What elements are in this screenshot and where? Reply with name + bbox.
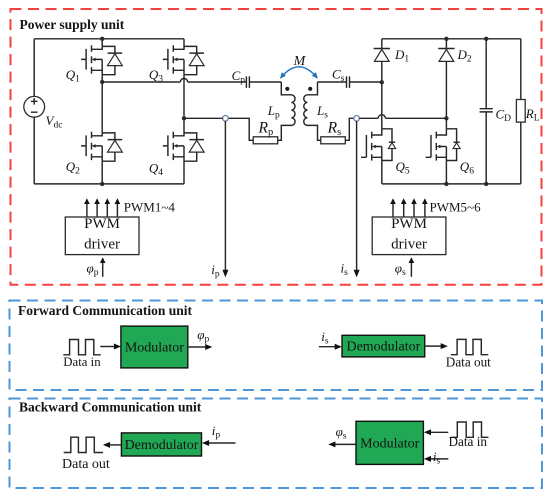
junction dot bottom of leg A — [100, 182, 104, 186]
node: primary current probe circle — [223, 116, 229, 122]
svg-text:ip: ip — [211, 262, 220, 280]
svg-text:Q5: Q5 — [396, 159, 410, 177]
wire: leg C (D1/Q5) — [381, 39, 383, 184]
resistor Rs — [321, 137, 346, 144]
forward unit: data-out waveform — [451, 339, 489, 354]
transistor Q6 — [426, 129, 461, 161]
gate drive arrows PWM5-6 — [390, 198, 428, 217]
svg-text:Q4: Q4 — [149, 161, 163, 179]
current arrow ip — [222, 121, 228, 278]
mutual inductance coupling arrow — [280, 67, 318, 79]
svg-text:D1: D1 — [394, 47, 409, 65]
wire: secondary top to Cs — [318, 81, 347, 83]
PWM driver box left — [65, 217, 139, 255]
wire: Rp to primary node — [228, 118, 253, 140]
gate drive arrows PWM1-4 — [84, 198, 120, 217]
svg-text:Vdc: Vdc — [46, 113, 63, 131]
transistor Q5 — [361, 129, 396, 161]
svg-text:Power supply unit: Power supply unit — [20, 17, 125, 32]
transistor Q4 — [163, 132, 204, 161]
phase input arrow right — [409, 257, 415, 277]
wire: top-left rail — [34, 38, 184, 40]
svg-text:Rp: Rp — [258, 119, 274, 138]
inductor Ls secondary winding — [304, 82, 321, 140]
svg-text:Data out: Data out — [62, 457, 110, 472]
svg-text:is: is — [433, 449, 441, 467]
svg-text:driver: driver — [84, 237, 120, 253]
svg-text:Cp: Cp — [232, 68, 246, 86]
wire: bottom-right rail — [382, 183, 521, 185]
backward unit: data-in waveform — [451, 422, 489, 437]
wire: bottom-left rail — [34, 183, 184, 185]
junction dot Cs node — [380, 80, 384, 84]
svg-text:is: is — [341, 261, 349, 279]
junction dot bottom leg D — [444, 182, 448, 186]
polarity dot primary — [285, 87, 289, 91]
svg-text:Ls: Ls — [316, 103, 328, 121]
backward communication unit blue dashed border — [10, 399, 543, 489]
svg-text:Q6: Q6 — [460, 159, 474, 177]
svg-text:Lp: Lp — [267, 103, 280, 121]
arrow: is into modulator (backward) — [424, 456, 448, 462]
svg-text:Demodulator: Demodulator — [125, 438, 199, 453]
junction dot mid leg B — [182, 116, 186, 120]
wire: Cs to leg C — [350, 81, 382, 83]
transistor Q1 — [81, 45, 122, 74]
source Vdc — [24, 96, 45, 117]
junction dot leg D mid — [444, 116, 448, 120]
arrow: is to demodulator — [319, 344, 342, 350]
polarity dot secondary — [308, 87, 312, 91]
svg-text:φs: φs — [336, 424, 347, 442]
wire: secondary node to leg D with hop over leg C — [359, 115, 446, 119]
demodulator box (forward) — [342, 335, 425, 357]
power supply unit red dashed border — [11, 9, 542, 285]
svg-text:RL: RL — [525, 106, 540, 124]
svg-text:Rs: Rs — [327, 119, 342, 138]
demodulator box (backward) — [121, 433, 201, 456]
current arrow is — [354, 121, 360, 278]
wire: top-right rail — [382, 38, 521, 40]
svg-text:Demodulator: Demodulator — [346, 340, 420, 355]
capacitor Cp — [246, 76, 249, 88]
resistor RL — [516, 39, 525, 184]
modulator box (backward) — [356, 421, 423, 464]
wire: left rail — [33, 39, 35, 184]
arrow: demodulator output — [425, 343, 448, 349]
arrow: modulator output phi-s — [328, 441, 356, 447]
wire: node to leg B midpoint — [184, 117, 223, 119]
junction dot top of leg A — [100, 37, 104, 41]
svg-text:Data in: Data in — [449, 434, 488, 449]
svg-text:ip: ip — [212, 423, 221, 441]
svg-text:Data in: Data in — [63, 355, 101, 369]
svg-text:Cs: Cs — [332, 66, 345, 84]
transistor Q2 — [81, 132, 122, 161]
svg-text:Modulator: Modulator — [360, 436, 419, 451]
svg-text:D2: D2 — [457, 47, 472, 65]
svg-text:PWM5~6: PWM5~6 — [430, 199, 482, 214]
forward unit: data-in waveform — [63, 340, 101, 355]
arrow: modulator output — [188, 344, 213, 350]
PWM driver box right — [372, 217, 446, 255]
arrow: data-in to modulator — [100, 344, 121, 350]
phase input arrow left — [100, 257, 106, 277]
wire: leg B (Q3/Q4 leg) — [183, 39, 185, 184]
svg-text:driver: driver — [391, 237, 427, 253]
svg-text:PWM: PWM — [84, 216, 120, 232]
svg-text:PWM: PWM — [391, 216, 427, 232]
arrow: ip into demodulator — [202, 440, 236, 446]
junction dot top CD — [484, 37, 488, 41]
junction dot top leg D — [444, 37, 448, 41]
svg-text:Forward Communication unit: Forward Communication unit — [18, 303, 193, 318]
svg-text:PWM1~4: PWM1~4 — [124, 199, 176, 214]
junction dot mid leg A — [100, 80, 104, 84]
svg-text:Data out: Data out — [446, 354, 491, 369]
svg-text:Backward Communication unit: Backward Communication unit — [19, 399, 202, 414]
inductor Lp primary winding — [278, 82, 295, 140]
diode D2 — [438, 49, 454, 62]
svg-text:CD: CD — [496, 107, 512, 125]
svg-text:Q2: Q2 — [66, 159, 80, 177]
resistor Rp — [253, 137, 278, 144]
svg-text:Q1: Q1 — [66, 67, 80, 85]
svg-text:is: is — [321, 329, 329, 347]
forward communication unit blue dashed border — [10, 301, 543, 391]
node: secondary current probe circle — [354, 116, 360, 122]
svg-text:Modulator: Modulator — [125, 341, 184, 356]
svg-text:φp: φp — [197, 327, 209, 345]
svg-text:φs: φs — [395, 260, 406, 278]
wire: leg A (Q1/Q2 leg) — [101, 39, 103, 184]
wire: bridge mid wire to Cp with hop over leg B — [102, 78, 246, 82]
diode D1 — [374, 49, 390, 62]
arrow: data-in to modulator (backward) — [424, 429, 448, 435]
capacitor Cs — [347, 76, 350, 88]
junction dot bottom CD — [484, 182, 488, 186]
arrow: demodulator to data-out — [103, 442, 122, 448]
wire: leg D (D2/Q6) — [445, 39, 447, 184]
capacitor CD — [480, 39, 493, 184]
svg-text:φp: φp — [87, 260, 99, 278]
transistor Q3 — [163, 45, 204, 74]
modulator box (forward) — [121, 326, 188, 368]
wire: Cp to primary winding — [250, 81, 282, 83]
wire: Rs to secondary node — [345, 118, 354, 140]
backward unit: data-out waveform — [64, 437, 103, 452]
